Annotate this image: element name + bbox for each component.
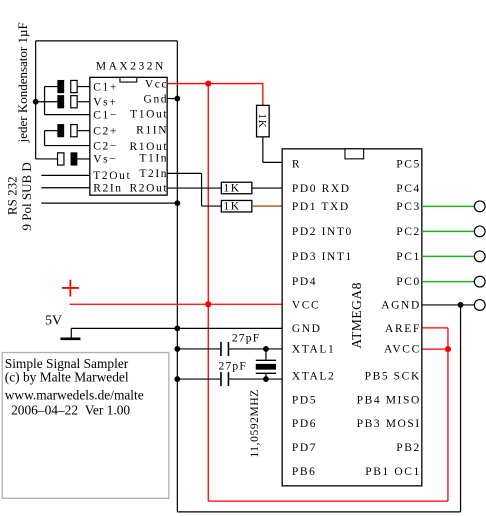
svg-text:PD0 RXD: PD0 RXD: [292, 183, 351, 195]
capacitor C4: [58, 152, 78, 165]
connector pad PC0: [474, 276, 485, 287]
node junction: [263, 376, 269, 382]
wire: [36, 158, 90, 160]
svg-text:PC4: PC4: [396, 183, 421, 195]
U1 pin labels left: [93, 81, 131, 194]
op-amp U1 MAX232N body: [90, 60, 167, 195]
svg-text:1K: 1K: [223, 183, 240, 195]
svg-text:PC5: PC5: [396, 159, 421, 171]
wire PC2 green: [422, 230, 475, 232]
svg-text:Gnd: Gnd: [144, 93, 169, 105]
net GND top rail wire: [36, 41, 461, 512]
svg-text:9 Pol SUB D: 9 Pol SUB D: [19, 162, 34, 230]
svg-text:PD1 TXD: PD1 TXD: [292, 201, 350, 213]
wire: [177, 511, 460, 513]
node junction: [174, 376, 180, 382]
resistor R3 1K: [256, 105, 269, 137]
svg-text:T1In: T1In: [139, 152, 168, 164]
svg-text:www.marwedels.de/malte: www.marwedels.de/malte: [5, 388, 144, 403]
svg-text:PD6: PD6: [292, 418, 317, 430]
svg-text:27pF: 27pF: [219, 361, 247, 373]
resistor R2 1K: [221, 200, 252, 212]
svg-text:27pF: 27pF: [232, 332, 260, 344]
wire AGND: [422, 304, 475, 306]
node Gnd junction: [174, 96, 180, 102]
wire RS232 T2Out: [41, 174, 90, 176]
svg-text:5V: 5V: [45, 313, 62, 328]
resistor R1 1K: [221, 182, 252, 194]
svg-text:R1Out: R1Out: [129, 141, 168, 153]
wire: [45, 87, 90, 115]
svg-text:R2Out: R2Out: [129, 183, 168, 195]
ground symbol: [60, 328, 80, 339]
svg-text:Vcc: Vcc: [145, 78, 168, 90]
node junction: [174, 346, 180, 352]
svg-text:XTAL1: XTAL1: [292, 344, 336, 356]
svg-text:R: R: [292, 159, 301, 171]
node AGND junction: [458, 302, 464, 308]
svg-text:PB5 SCK: PB5 SCK: [365, 370, 421, 382]
svg-text:AGND: AGND: [381, 300, 421, 312]
wire: [45, 131, 90, 146]
node Vs+ junction: [33, 99, 39, 105]
wire: [36, 101, 90, 103]
svg-text:R2In: R2In: [93, 183, 122, 195]
wire: [36, 40, 178, 42]
svg-text:GND: GND: [292, 323, 322, 335]
crystal Q1: [256, 349, 276, 379]
op-amp U2 ATMEGA8 body: [282, 149, 422, 486]
wire R1 to PD0: [252, 187, 282, 189]
wire XTAL2: [177, 378, 282, 380]
svg-text:C2−: C2−: [93, 140, 118, 152]
svg-text:PD2 INT0: PD2 INT0: [292, 226, 353, 238]
svg-text:(c) by Malte Marwedel: (c) by Malte Marwedel: [5, 369, 129, 384]
svg-text:T2In: T2In: [139, 168, 168, 180]
wire: [35, 41, 37, 159]
wire R2 to PD1 brown: [252, 205, 282, 207]
wire XTAL1: [177, 348, 282, 350]
capacitor C5 27pF: [221, 342, 229, 356]
node junction: [174, 325, 180, 331]
svg-text:PD7: PD7: [292, 442, 317, 454]
svg-text:1K: 1K: [223, 201, 240, 213]
node red junction: [205, 301, 211, 307]
svg-text:PC2: PC2: [396, 226, 421, 238]
U2 pin labels right: [357, 159, 421, 479]
U2 pin labels left: [292, 159, 353, 479]
wire R2Out to R1: [167, 187, 221, 189]
svg-text:VCC: VCC: [292, 300, 320, 312]
svg-text:C1+: C1+: [93, 81, 118, 93]
svg-text:R1IN: R1IN: [136, 124, 168, 136]
svg-text:PC3: PC3: [396, 201, 421, 213]
svg-text:PD3 INT1: PD3 INT1: [292, 251, 353, 263]
capacitor C3: [57, 95, 77, 108]
node red junction: [445, 346, 451, 352]
capacitor C1: [57, 80, 77, 93]
wire RS232 R2In: [41, 187, 90, 189]
svg-text:AREF: AREF: [385, 323, 421, 335]
frame info box: [2, 353, 169, 499]
svg-text:PD4: PD4: [292, 276, 317, 288]
svg-text:PB1 OC1: PB1 OC1: [365, 466, 421, 478]
wire RS232 GND: [41, 202, 177, 204]
wire: [460, 305, 462, 512]
svg-text:Vs+: Vs+: [93, 97, 117, 109]
connector pad AGND: [474, 300, 485, 311]
svg-text:jeder Kondensator 1µF: jeder Kondensator 1µF: [15, 22, 30, 143]
connector pad PC2: [474, 226, 485, 237]
svg-text:ATMEGA8: ATMEGA8: [349, 282, 364, 349]
capacitor C2: [57, 124, 77, 137]
wire: [176, 41, 178, 512]
svg-text:Vs−: Vs−: [93, 154, 117, 166]
svg-text:PC0: PC0: [396, 276, 421, 288]
wire T2In to R2: [167, 173, 221, 206]
svg-text:C1−: C1−: [93, 109, 118, 121]
svg-text:1K: 1K: [256, 114, 267, 129]
node junction: [263, 346, 269, 352]
svg-text:XTAL2: XTAL2: [292, 370, 336, 382]
svg-text:RS 232: RS 232: [4, 176, 19, 215]
svg-text:T2Out: T2Out: [93, 170, 131, 182]
svg-text:11,0592MHZ: 11,0592MHZ: [249, 389, 261, 458]
svg-text:PC1: PC1: [396, 251, 421, 263]
wire GND row: [71, 327, 282, 329]
svg-text:AVCC: AVCC: [384, 344, 421, 356]
node red junction: [205, 80, 211, 86]
wire VCC red: [70, 84, 448, 502]
wire Gnd stub: [167, 98, 177, 100]
svg-text:T1Out: T1Out: [130, 109, 168, 121]
capacitor C6 27pF: [221, 372, 229, 386]
U1 pin labels right: [129, 78, 168, 194]
svg-text:C2+: C2+: [93, 125, 118, 137]
wire PC1 green: [422, 255, 475, 257]
power 5V plus symbol: [62, 280, 79, 297]
svg-text:PB2: PB2: [396, 442, 421, 454]
svg-text:PD5: PD5: [292, 395, 317, 407]
svg-text:2006–04–22 Ver 1.00: 2006–04–22 Ver 1.00: [8, 402, 131, 417]
svg-text:PB3 MOSI: PB3 MOSI: [357, 418, 421, 430]
wire PC3 green: [422, 205, 475, 207]
wire PC0 green: [422, 281, 475, 283]
wire reset: [263, 137, 282, 163]
connector pad PC3: [474, 201, 485, 212]
connector pad PC1: [474, 251, 485, 262]
svg-text:PB4 MISO: PB4 MISO: [357, 395, 421, 407]
svg-text:MAX232N: MAX232N: [96, 60, 166, 72]
svg-text:PB6: PB6: [292, 466, 317, 478]
node junction: [174, 200, 180, 206]
